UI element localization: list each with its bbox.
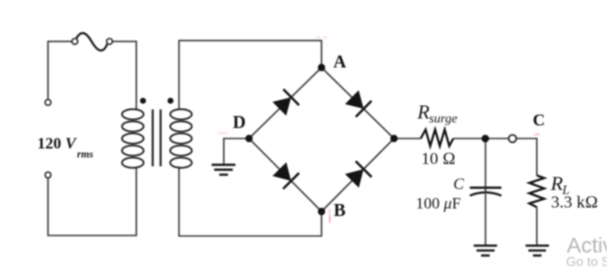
svg-text:rms: rms [77,149,93,160]
svg-text:100 μF: 100 μF [416,196,461,213]
svg-text:120 V: 120 V [37,135,77,152]
svg-text:C: C [453,176,464,193]
svg-text:C: C [533,110,545,129]
svg-text:B: B [334,200,346,220]
svg-text:3.3 kΩ: 3.3 kΩ [551,193,598,212]
svg-text:Go to Settings to activate: Go to Settings to activate [566,254,607,267]
svg-text:10 Ω: 10 Ω [421,149,455,168]
svg-text:A: A [333,51,346,71]
svg-text:R: R [416,101,429,123]
svg-text:D: D [233,112,246,132]
svg-text:surge: surge [429,111,458,126]
